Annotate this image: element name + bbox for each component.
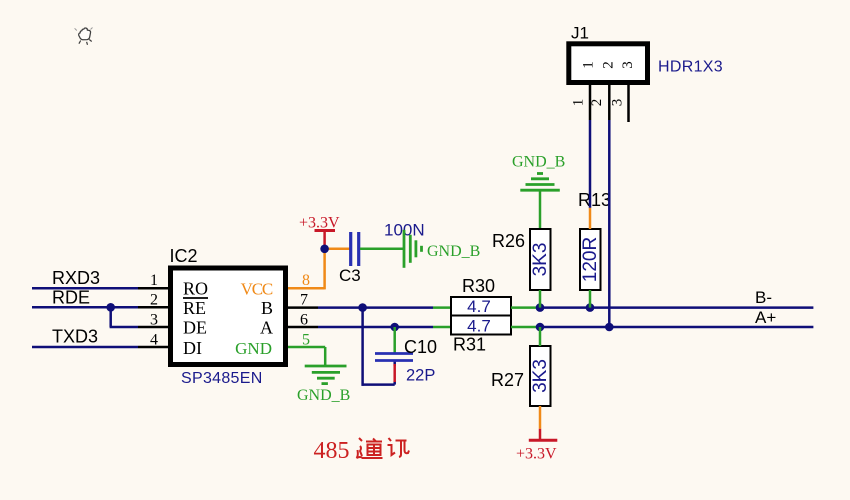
- junction dot VCC node: [320, 245, 329, 254]
- value 4.7 R30: [467, 297, 491, 316]
- label +3.3V bottom: [516, 446, 557, 463]
- pin number 7: [300, 292, 308, 309]
- pin number 4: [150, 331, 158, 348]
- op IC2 pin stubs left: [138, 288, 168, 347]
- J1 pin stubs: [590, 85, 629, 122]
- wire green stub C10 top: [393, 327, 396, 354]
- hanzi XUN 讯: [388, 438, 410, 457]
- wire TXD3 net: [32, 346, 138, 349]
- label R27: [491, 370, 524, 390]
- wire A net from pin6: [318, 326, 433, 329]
- svg-text:2: 2: [589, 99, 605, 107]
- svg-text:R13: R13: [578, 190, 611, 210]
- capacitor C10 plates: [375, 354, 413, 361]
- svg-text:4.7: 4.7: [467, 297, 491, 316]
- wire green R30 right: [511, 306, 540, 309]
- svg-text:GND_B: GND_B: [512, 154, 565, 171]
- svg-text:+3.3V: +3.3V: [299, 215, 340, 232]
- hanzi TONG 通: [357, 438, 383, 458]
- svg-text:GND: GND: [235, 339, 272, 358]
- pin name RE: [183, 298, 206, 318]
- pin number 2: [150, 292, 158, 309]
- label HDR1X3: [658, 59, 723, 76]
- svg-text:J1: J1: [571, 24, 589, 43]
- pin name A: [260, 318, 273, 338]
- svg-text:R30: R30: [462, 276, 495, 296]
- svg-text:GND_B: GND_B: [297, 387, 350, 404]
- svg-text:B-: B-: [755, 288, 772, 307]
- svg-text:SP3485EN: SP3485EN: [181, 370, 263, 387]
- junction dot on A net at C10 top: [390, 323, 399, 332]
- svg-text:1: 1: [150, 272, 158, 289]
- svg-text:3: 3: [610, 99, 626, 107]
- overline of RE: [183, 297, 208, 299]
- svg-text:GND_B: GND_B: [427, 243, 480, 260]
- label R13: [578, 190, 611, 210]
- wire red segment under C10: [393, 364, 396, 382]
- svg-text:C10: C10: [404, 337, 437, 357]
- svg-text:R26: R26: [492, 231, 525, 251]
- label C10: [404, 337, 437, 357]
- svg-text:485: 485: [314, 438, 350, 464]
- pin number 6: [300, 311, 308, 328]
- ground GND_B rotated right: [404, 230, 422, 268]
- pin number 3 inside J1 rotated: [620, 61, 636, 69]
- svg-text:RE: RE: [183, 298, 206, 318]
- IC right pin stubs 7 and 6: [288, 308, 318, 327]
- svg-text:2: 2: [601, 61, 617, 69]
- pin name RO: [183, 279, 208, 299]
- value 22P: [406, 367, 435, 385]
- svg-text:C3: C3: [339, 266, 361, 285]
- label R31: [453, 335, 486, 355]
- power +3.3V bottom symbol: [529, 429, 558, 441]
- junction dot RDE: [106, 303, 115, 312]
- label SP3485EN: [181, 370, 263, 387]
- label IC2: [170, 246, 198, 266]
- pin number 1 inside J1 rotated: [581, 61, 597, 69]
- svg-text:RO: RO: [183, 279, 208, 299]
- svg-text:4.7: 4.7: [467, 317, 491, 336]
- junction dot on B net at C10 branch: [358, 303, 367, 312]
- wire green R13 bottom: [589, 290, 592, 308]
- junction dot B at R26: [536, 303, 545, 312]
- wire orange R27 bottom: [539, 406, 542, 429]
- svg-text:VCC: VCC: [241, 280, 273, 299]
- wire B- long line: [540, 306, 813, 309]
- svg-text:A+: A+: [755, 308, 776, 327]
- svg-text:A: A: [260, 318, 273, 338]
- value 3K3 R26 rotated: [530, 243, 551, 277]
- wire J1 pin1 down to R13: [589, 120, 592, 208]
- net label 3 rotated: [610, 99, 626, 107]
- value 4.7 R31: [467, 317, 491, 336]
- value 3K3 R27 rotated: [530, 359, 551, 393]
- power +3.3V top symbol: [315, 231, 336, 249]
- svg-text:TXD3: TXD3: [52, 326, 98, 346]
- pin name DE: [183, 318, 207, 338]
- pin name VCC: [241, 280, 273, 299]
- net label GND_B right of C3 ground: [427, 243, 480, 260]
- label +3.3V top: [299, 215, 340, 232]
- svg-text:7: 7: [300, 292, 308, 309]
- pin name B: [261, 298, 273, 318]
- svg-text:RXD3: RXD3: [52, 268, 100, 288]
- label RDE: [52, 288, 90, 308]
- value 120R rotated: [580, 237, 601, 282]
- wire C3 to ground green: [360, 248, 404, 251]
- wire green into R30 left: [433, 306, 451, 309]
- svg-text:R31: R31: [453, 335, 486, 355]
- junction dot B at R13: [586, 303, 595, 312]
- junction dot A at R27: [536, 323, 545, 332]
- wire A+ long line: [540, 326, 813, 329]
- svg-text:HDR1X3: HDR1X3: [658, 59, 723, 76]
- pin number 1: [150, 272, 158, 289]
- resistor R26 body: [530, 229, 551, 290]
- svg-text:2: 2: [150, 292, 158, 309]
- svg-text:R27: R27: [491, 370, 524, 390]
- wire green GND to R26 top: [539, 190, 542, 229]
- ground GND_B above R26 flipped: [520, 174, 560, 191]
- pin number 5: [302, 331, 310, 348]
- pin number 3: [150, 311, 158, 328]
- svg-text:DE: DE: [183, 318, 207, 338]
- wire B net from pin7: [318, 306, 433, 309]
- wire green R31 right: [511, 326, 540, 329]
- net label GND_B above R26: [512, 154, 565, 171]
- resistor R27 body: [530, 346, 551, 406]
- svg-text:3: 3: [620, 61, 636, 69]
- resistor R31 body: [451, 316, 511, 335]
- label RXD3: [52, 268, 100, 288]
- svg-text:+3.3V: +3.3V: [516, 446, 557, 463]
- svg-text:4: 4: [150, 331, 158, 348]
- wire RDE branch to pin3: [110, 307, 138, 327]
- IC U1 body SP3485EN: [171, 268, 286, 365]
- resistor R30 body: [451, 297, 511, 316]
- label J1: [571, 24, 589, 43]
- wire green R27 top: [539, 327, 542, 346]
- svg-text:120R: 120R: [580, 237, 601, 282]
- wire green into R31 left: [433, 326, 451, 329]
- value 100N: [384, 221, 425, 240]
- svg-text:1: 1: [581, 61, 597, 69]
- svg-text:3K3: 3K3: [530, 243, 551, 277]
- svg-text:DI: DI: [183, 338, 202, 358]
- title 485 red: [314, 438, 350, 464]
- svg-text:3K3: 3K3: [530, 359, 551, 393]
- pin number 2 inside J1 rotated: [601, 61, 617, 69]
- label TXD3: [52, 326, 98, 346]
- svg-text:B: B: [261, 298, 273, 318]
- wire RXD3 net: [32, 287, 138, 290]
- label R30: [462, 276, 495, 296]
- label B-: [755, 288, 772, 307]
- svg-text:3: 3: [150, 311, 158, 328]
- wire J1 pin2 down to A+: [608, 120, 611, 327]
- wire C10 branch L-shape: [362, 308, 395, 386]
- svg-text:22P: 22P: [406, 367, 435, 385]
- mouse hand cursor: [75, 28, 93, 45]
- wire orange above R13: [589, 208, 592, 229]
- wire pin5 GND green: [288, 347, 325, 366]
- label C3: [339, 266, 361, 285]
- svg-text:8: 8: [302, 272, 310, 289]
- capacitor C3 plates: [351, 232, 359, 266]
- pin name GND: [235, 339, 272, 358]
- label R26: [492, 231, 525, 251]
- junction dot A at J1 pin2: [605, 323, 614, 332]
- svg-text:1: 1: [571, 99, 587, 107]
- connector J1 body: [569, 44, 648, 83]
- wire pin8 VCC orange: [288, 249, 350, 290]
- net label 1 rotated: [571, 99, 587, 107]
- wire RDE net horizontal: [32, 306, 138, 309]
- pin number 8: [302, 272, 310, 289]
- wire green R26 bottom: [539, 290, 542, 308]
- label A+: [755, 308, 776, 327]
- resistor R13 body: [580, 229, 601, 290]
- pin name DI: [183, 338, 202, 358]
- net label 2 rotated: [589, 99, 605, 107]
- ground GND_B under IC: [305, 366, 347, 384]
- svg-text:RDE: RDE: [52, 288, 90, 308]
- net label GND_B under IC: [297, 387, 350, 404]
- svg-text:IC2: IC2: [170, 246, 198, 266]
